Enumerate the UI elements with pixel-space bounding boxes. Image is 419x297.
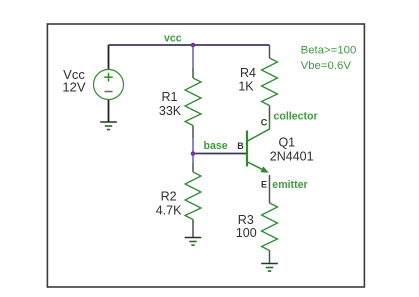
schematic border frame bbox=[47, 24, 364, 287]
svg-text:Vbe=0.6V: Vbe=0.6V bbox=[301, 60, 352, 72]
wire base horizontal bbox=[193, 153, 246, 155]
svg-text:R1: R1 bbox=[162, 90, 178, 104]
resistor R3 bottom lead bbox=[269, 251, 271, 264]
svg-text:R2: R2 bbox=[161, 189, 177, 203]
svg-text:vcc: vcc bbox=[164, 32, 182, 44]
svg-text:Q1: Q1 bbox=[278, 135, 295, 149]
svg-text:emitter: emitter bbox=[272, 179, 307, 191]
svg-text:Beta>=100: Beta>=100 bbox=[301, 45, 357, 57]
svg-text:100: 100 bbox=[236, 226, 257, 240]
svg-text:collector: collector bbox=[274, 110, 318, 122]
resistor R1 leads bbox=[192, 68, 194, 138]
svg-text:2N4401: 2N4401 bbox=[270, 150, 314, 164]
transistor Q1 collector lead bbox=[248, 121, 270, 142]
resistor R3 zigzag bbox=[262, 203, 278, 251]
voltage source V1 plus sign bbox=[104, 73, 113, 82]
svg-text:1K: 1K bbox=[238, 79, 254, 93]
svg-text:4.7K: 4.7K bbox=[156, 203, 182, 217]
svg-text:B: B bbox=[237, 141, 244, 151]
voltage source V1 circle bbox=[94, 70, 124, 100]
wire vcc rail bbox=[109, 44, 270, 46]
ground under V1 bbox=[100, 122, 117, 130]
wire R4 top drop bbox=[269, 45, 271, 51]
transistor Q1 base bar bbox=[246, 131, 248, 167]
transistor Q1 emitter arrow bbox=[261, 166, 269, 172]
ground under R2 bbox=[185, 238, 202, 246]
resistor R2 zigzag bbox=[185, 172, 201, 220]
ground under R3 bbox=[261, 264, 278, 272]
voltage source V1 leads bbox=[108, 45, 110, 122]
svg-text:C: C bbox=[261, 117, 268, 127]
wire R1 top drop bbox=[192, 45, 194, 68]
svg-text:12V: 12V bbox=[62, 80, 85, 95]
resistor R4 leads bbox=[269, 51, 271, 121]
wire emitter to R3 bbox=[269, 175, 271, 203]
resistor R4 zigzag bbox=[262, 58, 278, 106]
svg-text:base: base bbox=[204, 140, 228, 152]
wire base node to R2 bbox=[192, 154, 194, 164]
resistor R1 zigzag bbox=[185, 78, 201, 126]
node base junction dot bbox=[191, 151, 196, 156]
resistor R2 leads bbox=[192, 163, 194, 238]
svg-text:33K: 33K bbox=[159, 104, 182, 118]
svg-text:R4: R4 bbox=[240, 66, 256, 80]
node vcc junction dot bbox=[191, 43, 196, 48]
transistor Q1 emitter lead bbox=[248, 162, 266, 171]
svg-text:E: E bbox=[261, 180, 267, 190]
voltage source V1 minus sign bbox=[105, 91, 113, 93]
wire R1 bottom to base node bbox=[192, 138, 194, 154]
